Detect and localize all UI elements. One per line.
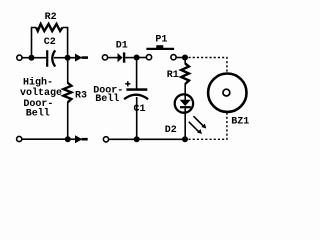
terminal top-right [102, 55, 107, 60]
wire R2 branch left riser [32, 28, 37, 58]
svg-text:C2: C2 [44, 37, 56, 48]
resistor R2 [36, 24, 62, 31]
label Door-Bell right [93, 85, 123, 105]
bottom output arrow [75, 135, 88, 143]
label BZ1 [231, 116, 249, 127]
label C2 [44, 37, 56, 48]
label R3 [75, 91, 87, 102]
svg-text:BZ1: BZ1 [231, 116, 249, 127]
svg-text:voltage: voltage [20, 87, 62, 99]
buzzer BZ1 [208, 74, 246, 112]
node C junction [65, 136, 71, 142]
wire C2 to node B [54, 57, 68, 59]
terminal top-left [17, 55, 22, 60]
LED D2 [175, 94, 193, 139]
terminal bottom-right [103, 137, 108, 142]
LED light arrows [189, 116, 207, 134]
pushbutton P1 [146, 45, 176, 60]
capacitor C2 [47, 50, 55, 67]
dashed wire node G to buzzer top [189, 58, 227, 73]
svg-text:R1: R1 [167, 70, 179, 81]
node F junction [182, 136, 188, 142]
node E junction [134, 136, 140, 142]
wire C1 to node E [136, 97, 138, 139]
node G junction [182, 55, 188, 61]
svg-text:R2: R2 [45, 12, 57, 23]
resistor R3 [63, 58, 71, 140]
top output arrow [75, 54, 88, 62]
node A junction [29, 55, 35, 61]
wire node D down to C1 [136, 58, 138, 89]
svg-text:C1: C1 [134, 104, 146, 115]
svg-text:High-: High- [23, 77, 53, 89]
wire node B to top arrow [68, 57, 76, 59]
capacitor C1 [124, 88, 148, 99]
node B junction [65, 55, 71, 61]
wire terminal to D1 [108, 57, 118, 59]
wire R2 branch right riser [62, 28, 67, 58]
svg-text:Bell: Bell [26, 108, 50, 120]
label D1 [116, 40, 128, 51]
plus sign of C1 [125, 81, 130, 86]
wire bottom-right terminal to node E [109, 138, 134, 140]
node D junction [134, 55, 140, 61]
label R1 [167, 70, 179, 81]
resistor R1 [181, 58, 189, 95]
svg-text:Bell: Bell [95, 93, 119, 105]
wire P1 to node G [176, 57, 183, 59]
label High-voltage Door-Bell [20, 77, 62, 120]
label D2 [165, 125, 177, 136]
wire node E to node F [137, 138, 185, 140]
wire node A to C2 [32, 57, 47, 59]
svg-text:R3: R3 [75, 91, 87, 102]
diode D1 [118, 52, 135, 62]
label R2 [45, 12, 57, 23]
wire terminal to node A [22, 57, 29, 59]
wire node C to bottom arrow [68, 138, 76, 140]
wire node D to P1 [137, 57, 147, 59]
label P1 [155, 34, 167, 45]
label C1 [134, 104, 146, 115]
terminal bottom-left [17, 136, 22, 141]
wire bottom-left [22, 138, 65, 140]
dashed wire node F to buzzer bottom [189, 113, 227, 139]
svg-text:D1: D1 [116, 40, 128, 51]
svg-text:P1: P1 [155, 34, 167, 45]
svg-text:D2: D2 [165, 125, 177, 136]
